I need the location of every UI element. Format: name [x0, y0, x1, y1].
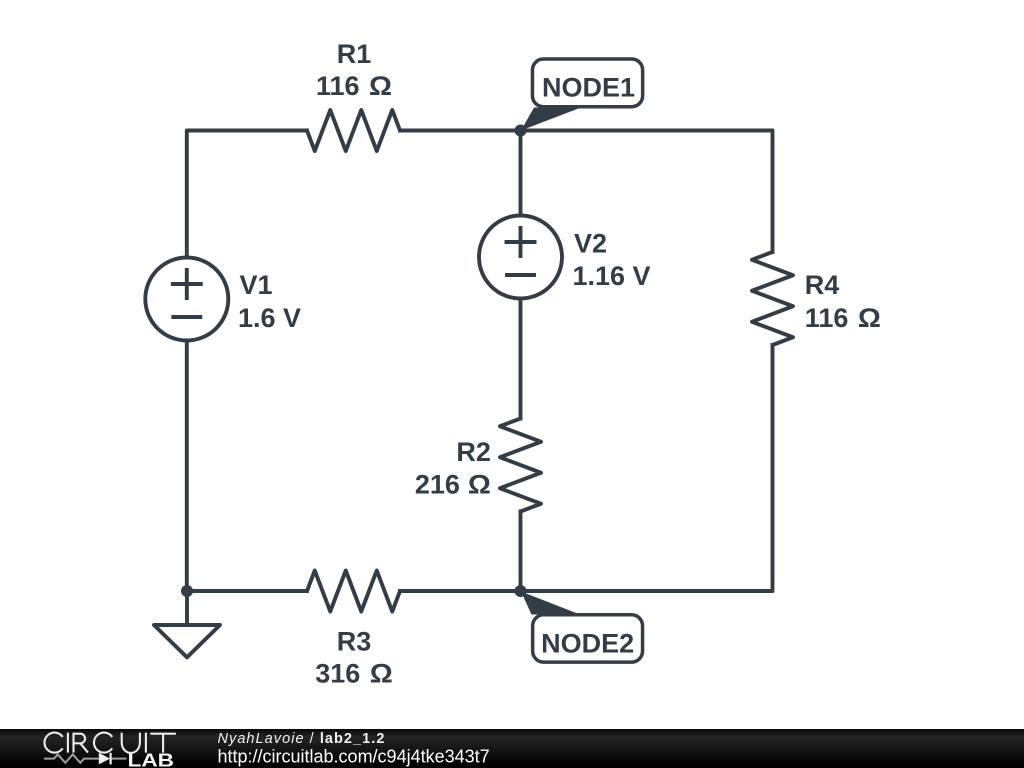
svg-text:http://circuitlab.com/c94j4tke: http://circuitlab.com/c94j4tke343t7 — [218, 747, 490, 767]
svg-text:1.6 V: 1.6 V — [238, 303, 301, 333]
svg-text:LAB: LAB — [128, 750, 175, 768]
svg-text:1.16 V: 1.16 V — [573, 261, 651, 291]
svg-text:V2: V2 — [574, 228, 607, 258]
svg-text:NODE2: NODE2 — [541, 628, 634, 658]
svg-text:316 Ω: 316 Ω — [315, 659, 393, 689]
svg-text:116 Ω: 116 Ω — [316, 71, 392, 101]
svg-text:R1: R1 — [337, 39, 372, 69]
svg-text:V1: V1 — [240, 270, 273, 300]
svg-text:R2: R2 — [456, 437, 491, 467]
svg-text:216 Ω: 216 Ω — [415, 470, 491, 500]
svg-text:R4: R4 — [805, 270, 840, 300]
svg-text:116 Ω: 116 Ω — [805, 303, 881, 333]
svg-text:NyahLavoie / lab2_1.2: NyahLavoie / lab2_1.2 — [218, 731, 386, 747]
svg-text:NODE1: NODE1 — [542, 72, 635, 102]
svg-text:R3: R3 — [337, 626, 372, 656]
